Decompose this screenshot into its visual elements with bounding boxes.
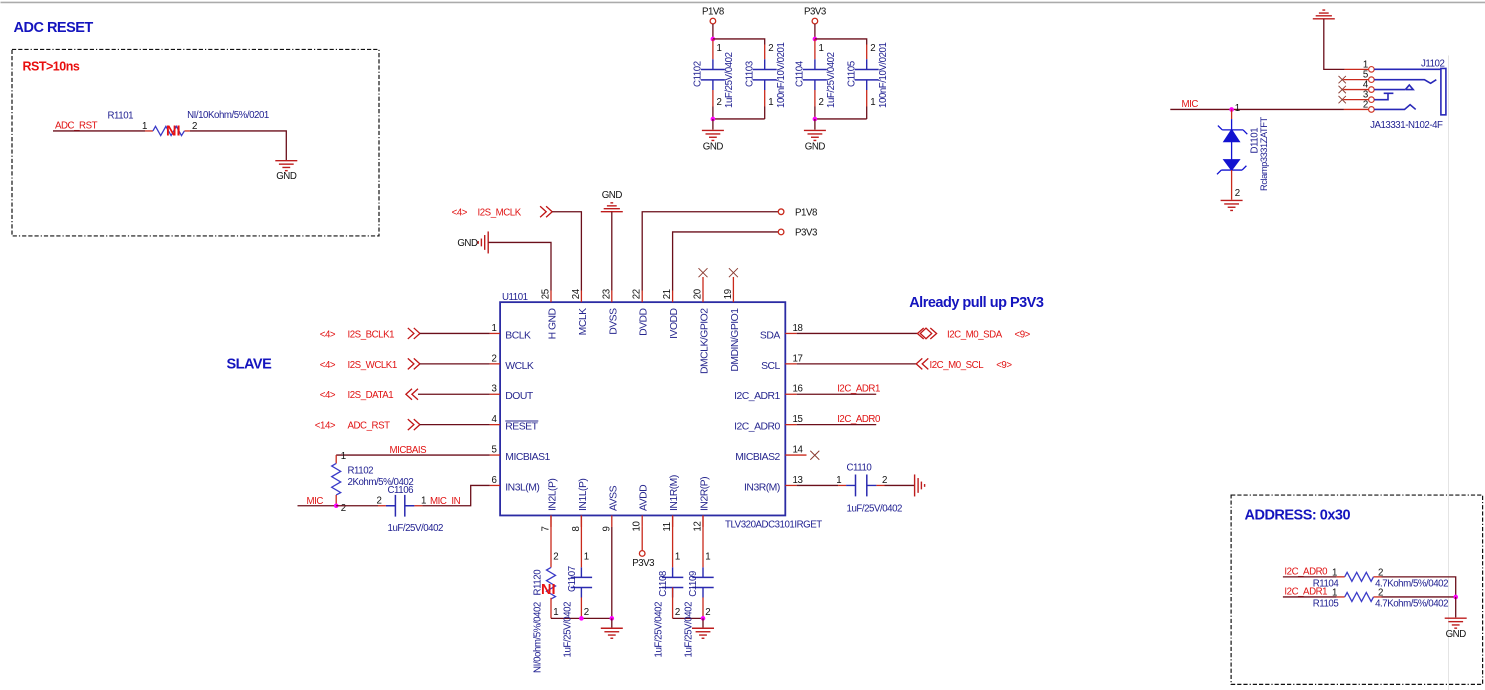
- J1102 pin 1: [1369, 67, 1375, 73]
- J1102 pin 4: [1369, 87, 1375, 93]
- svg-text:DOUT: DOUT: [505, 391, 534, 402]
- svg-text:MICBIAS2: MICBIAS2: [735, 452, 780, 463]
- svg-text:P3V3: P3V3: [632, 558, 654, 569]
- svg-text:4: 4: [492, 414, 498, 425]
- svg-text:1uF/25V/0402: 1uF/25V/0402: [654, 602, 665, 658]
- wire P1V8 to rail: [712, 24, 714, 39]
- svg-text:IVODD: IVODD: [669, 308, 680, 338]
- svg-text:2: 2: [492, 353, 497, 364]
- no-connect X on pin 19: [729, 268, 738, 277]
- svg-text:ADC RESET: ADC RESET: [14, 20, 94, 36]
- svg-text:ADC_RST: ADC_RST: [55, 120, 98, 131]
- svg-text:1: 1: [341, 451, 346, 462]
- wire IVODD pin 21 to P3V3: [673, 232, 779, 291]
- U1101 top pin stubs: [551, 277, 733, 302]
- svg-text:JA13331-N102-4F: JA13331-N102-4F: [1370, 120, 1443, 131]
- svg-text:R1101: R1101: [108, 110, 134, 121]
- svg-text:I2C_ADR0: I2C_ADR0: [734, 422, 780, 433]
- svg-text:6: 6: [492, 475, 497, 486]
- svg-text:NI: NI: [166, 123, 181, 139]
- ground symbol sideways right (C1110): [915, 474, 925, 496]
- wire I2S_DATA1 to pin 3: [418, 393, 490, 395]
- svg-text:4.7Kohm/5%/0402: 4.7Kohm/5%/0402: [1375, 599, 1448, 610]
- svg-text:BCLK: BCLK: [505, 330, 531, 341]
- svg-text:I2C_ADR0: I2C_ADR0: [1284, 566, 1328, 577]
- svg-text:I2C_ADR1: I2C_ADR1: [734, 391, 780, 402]
- svg-text:<4>: <4>: [320, 390, 336, 401]
- svg-text:2: 2: [584, 607, 589, 618]
- wire to ground: [702, 618, 704, 627]
- capacitor C1107: [571, 577, 592, 587]
- svg-text:P3V3: P3V3: [795, 228, 817, 239]
- U1101 right pin stubs: [785, 333, 806, 485]
- svg-text:3: 3: [492, 384, 497, 395]
- svg-text:<4>: <4>: [320, 329, 336, 340]
- svg-text:17: 17: [793, 353, 803, 364]
- svg-text:RESET: RESET: [505, 422, 538, 433]
- svg-text:1: 1: [421, 495, 426, 506]
- U1101 right pin numbers: [793, 323, 804, 486]
- svg-text:P1V8: P1V8: [702, 7, 724, 18]
- svg-text:WCLK: WCLK: [505, 361, 534, 372]
- capacitor C1102: [701, 69, 725, 79]
- capacitor C1106: [395, 495, 404, 517]
- wire to ground: [814, 119, 816, 130]
- svg-text:1: 1: [1332, 567, 1337, 578]
- wire pin 7 to R1120: [550, 515, 552, 567]
- U1101 left pin numbers: [492, 323, 498, 486]
- capacitor C1105: [855, 69, 879, 79]
- svg-text:C1104: C1104: [795, 60, 806, 87]
- wire R1104 pin2 to gnd branch: [1374, 576, 1382, 578]
- svg-text:NI/10Kohm/5%/0201: NI/10Kohm/5%/0201: [187, 110, 269, 121]
- svg-text:SDA: SDA: [760, 330, 780, 341]
- svg-text:NI: NI: [541, 582, 556, 598]
- svg-text:<4>: <4>: [452, 207, 468, 218]
- svg-text:2: 2: [768, 43, 773, 54]
- svg-text:2: 2: [341, 503, 346, 514]
- resistor R1105: [1345, 592, 1374, 601]
- svg-text:I2C_ADR1: I2C_ADR1: [1284, 587, 1327, 598]
- wire D1101 to ground: [1231, 170, 1233, 200]
- svg-text:AVDD: AVDD: [639, 485, 650, 511]
- ground symbol (C1108/C1109 group): [692, 628, 714, 638]
- node gnd rail junction 2: [610, 616, 615, 621]
- off-page chevron I2S_DATA1 (output): [406, 389, 418, 400]
- wire MIC node to C1106: [336, 505, 378, 507]
- wire I2C_ADR1 to R1105: [1283, 596, 1337, 598]
- svg-text:AVSS: AVSS: [608, 485, 619, 511]
- svg-text:P3V3: P3V3: [804, 7, 826, 18]
- node bottom rail junction: [813, 117, 818, 122]
- svg-text:GND: GND: [703, 141, 724, 152]
- svg-text:2: 2: [553, 551, 558, 562]
- svg-text:100nF/10V/0201: 100nF/10V/0201: [776, 43, 787, 108]
- wire R1102 to MIC node: [335, 495, 337, 506]
- svg-text:11: 11: [662, 522, 673, 531]
- svg-text:1: 1: [768, 97, 773, 108]
- svg-text:C1107: C1107: [567, 566, 578, 592]
- node P1V8 rail junction: [711, 37, 716, 42]
- wire I2C_ADR0 to R1104: [1283, 576, 1337, 578]
- svg-text:13: 13: [793, 475, 803, 486]
- U1101 bottom pin names: [548, 475, 711, 511]
- svg-text:IN1R(M): IN1R(M): [669, 475, 680, 511]
- svg-text:I2S_DATA1: I2S_DATA1: [348, 390, 394, 401]
- svg-text:P1V8: P1V8: [795, 207, 817, 218]
- ground symbol GND (P1V8 caps): [702, 130, 724, 140]
- svg-text:IN2L(P): IN2L(P): [548, 479, 559, 511]
- no-connect X on pin 14 MICBIAS2: [810, 451, 819, 460]
- wire MIC: [1170, 108, 1344, 110]
- svg-text:<9>: <9>: [1015, 329, 1031, 340]
- wire SDA pin 18: [797, 332, 918, 334]
- svg-text:15: 15: [793, 414, 803, 425]
- svg-text:R1102: R1102: [348, 465, 374, 476]
- wire MICBIAS1: [336, 454, 489, 456]
- svg-text:7: 7: [541, 526, 552, 531]
- svg-text:MCLK: MCLK: [578, 308, 589, 335]
- wire I2C_ADR1 pin 16: [797, 393, 877, 395]
- svg-text:GND: GND: [276, 171, 297, 182]
- svg-text:9: 9: [601, 526, 612, 531]
- off-page chevron I2C_M0_SCL: [916, 358, 928, 369]
- svg-text:2: 2: [377, 495, 382, 506]
- svg-text:1uF/25V/0402: 1uF/25V/0402: [847, 503, 903, 514]
- svg-text:5: 5: [492, 445, 497, 456]
- wire DVSS pin 23: [611, 212, 613, 291]
- wire caps to bottom rail: [713, 90, 765, 106]
- svg-text:MICBAIS: MICBAIS: [390, 445, 428, 456]
- ground symbol (top right, inverted above wire): [1313, 10, 1335, 19]
- wire I2S_BCLK1 to pin 1: [420, 332, 490, 334]
- svg-text:DMCLK/GPIO2: DMCLK/GPIO2: [700, 308, 711, 374]
- svg-text:ADDRESS: 0x30: ADDRESS: 0x30: [1245, 507, 1351, 523]
- svg-text:1: 1: [836, 475, 841, 486]
- wire ADC_RST to R1101 pin1: [53, 130, 145, 132]
- resistor R1102: [332, 463, 341, 494]
- dashed note box ADDRESS: [1231, 495, 1483, 684]
- capacitor C1108: [662, 577, 683, 587]
- svg-text:2: 2: [705, 607, 710, 618]
- page zone border faint vertical line: [1448, 55, 1449, 690]
- U1101 left pin names: [505, 330, 550, 493]
- svg-text:C1103: C1103: [745, 61, 756, 87]
- svg-text:1uF/25V/0402: 1uF/25V/0402: [563, 602, 574, 658]
- wire IN3R(M) pin 13 to C1110: [797, 484, 838, 486]
- svg-text:ADC_RST: ADC_RST: [348, 421, 391, 432]
- svg-text:14: 14: [793, 445, 804, 456]
- wire down to R1102: [335, 455, 337, 463]
- svg-text:MIC: MIC: [1182, 99, 1199, 110]
- wire top rail C1102/C1103: [713, 39, 765, 45]
- ground symbol GND (P3V3 caps): [804, 130, 826, 140]
- svg-text:12: 12: [693, 522, 704, 532]
- wire C1109 to gnd rail: [702, 597, 704, 618]
- svg-text:I2S_MCLK: I2S_MCLK: [478, 207, 522, 218]
- svg-text:I2C_M0_SCL: I2C_M0_SCL: [930, 360, 985, 371]
- svg-text:1: 1: [705, 551, 710, 562]
- svg-text:1: 1: [1235, 103, 1240, 114]
- node pullup gnd junction: [1453, 595, 1458, 600]
- wire DVDD pin 22 to P1V8: [642, 212, 778, 291]
- svg-text:8: 8: [571, 526, 582, 531]
- svg-text:1uF/25V/0402: 1uF/25V/0402: [684, 602, 695, 658]
- svg-text:1: 1: [584, 551, 589, 562]
- svg-text:C1110: C1110: [847, 462, 873, 473]
- wire I2S_MCLK to pin 24: [552, 212, 581, 291]
- wire I2S_WCLK1 to pin 2: [420, 363, 490, 365]
- U1101 left pin stubs: [490, 333, 501, 485]
- capacitor C1104: [803, 69, 827, 79]
- svg-text:SLAVE: SLAVE: [227, 356, 273, 372]
- svg-text:DVSS: DVSS: [608, 308, 619, 335]
- wire pin 8 to C1107: [580, 515, 582, 567]
- svg-text:4.7Kohm/5%/0402: 4.7Kohm/5%/0402: [1375, 578, 1448, 589]
- svg-text:1: 1: [553, 607, 558, 618]
- svg-text:RST>10ns: RST>10ns: [23, 59, 80, 73]
- off-page chevron I2S_BCLK1: [408, 328, 420, 339]
- svg-text:23: 23: [601, 289, 612, 299]
- wire C1110 to ground: [876, 484, 884, 486]
- capacitor C1110: [856, 475, 867, 497]
- svg-text:IN3R(M): IN3R(M): [744, 482, 780, 493]
- wire AVDD pin 10 to P3V3: [641, 527, 643, 551]
- svg-text:19: 19: [723, 289, 734, 299]
- ground symbol (pullups): [1445, 618, 1467, 628]
- svg-text:I2C_ADR0: I2C_ADR0: [837, 414, 881, 425]
- wire AVSS pin 9 to gnd: [611, 527, 613, 618]
- svg-text:25: 25: [541, 289, 552, 299]
- resistor R1101: [153, 126, 184, 135]
- svg-text:1: 1: [819, 43, 824, 54]
- wire pin 11 to C1108: [672, 515, 674, 567]
- svg-text:IN1L(P): IN1L(P): [578, 479, 589, 511]
- svg-text:I2C_ADR1: I2C_ADR1: [837, 384, 880, 395]
- RESET overline: [505, 420, 538, 422]
- svg-text:1: 1: [717, 43, 722, 54]
- svg-text:1: 1: [675, 551, 680, 562]
- svg-text:1: 1: [1332, 588, 1337, 599]
- no-connect X on pin 20: [699, 268, 708, 277]
- svg-text:GND: GND: [805, 141, 826, 152]
- svg-text:16: 16: [793, 384, 803, 395]
- U1101 bottom pin stubs: [551, 515, 703, 527]
- svg-text:2: 2: [675, 607, 680, 618]
- wire MIC: [298, 505, 337, 507]
- wire ground to J1102 pin1: [1324, 19, 1345, 70]
- off-page chevron I2S_MCLK: [540, 206, 552, 217]
- svg-text:22: 22: [632, 289, 643, 299]
- node MIC junction: [334, 503, 339, 508]
- svg-text:<4>: <4>: [320, 360, 336, 371]
- svg-text:C1106: C1106: [388, 485, 414, 496]
- svg-text:I2S_WCLK1: I2S_WCLK1: [348, 360, 397, 371]
- wire R1120 to gnd rail: [550, 598, 552, 619]
- wire C1106 to pin 6 IN3L(M): [414, 505, 422, 507]
- node bottom rail junction: [711, 117, 716, 122]
- svg-text:<9>: <9>: [996, 360, 1012, 371]
- jack body and contacts J1102: [1374, 68, 1446, 114]
- svg-text:R1105: R1105: [1313, 599, 1339, 610]
- ground symbol (D1101): [1221, 200, 1243, 210]
- svg-text:DVDD: DVDD: [639, 308, 650, 335]
- svg-text:H GND: H GND: [548, 308, 559, 339]
- svg-text:<14>: <14>: [315, 421, 336, 432]
- svg-text:2: 2: [882, 475, 887, 486]
- wire H GND to pin 25: [489, 242, 552, 290]
- svg-text:1: 1: [870, 97, 875, 108]
- wire P3V3 to rail: [814, 24, 816, 39]
- svg-text:1: 1: [142, 121, 147, 132]
- capacitor C1109: [692, 577, 713, 587]
- svg-text:Rclamp3331ZATFT: Rclamp3331ZATFT: [1259, 117, 1269, 191]
- off-page chevron I2S_WCLK1: [408, 358, 420, 369]
- wire to ground: [712, 119, 714, 130]
- svg-text:TLV320ADC3101IRGET: TLV320ADC3101IRGET: [725, 519, 822, 530]
- svg-text:20: 20: [693, 288, 704, 299]
- wire I2C_ADR0 pin 15: [797, 424, 877, 426]
- diode D1101 TVS: [1231, 109, 1233, 119]
- svg-text:DMDIN/GPIO1: DMDIN/GPIO1: [730, 308, 741, 372]
- resistor R1120: [547, 567, 556, 598]
- svg-text:2: 2: [819, 97, 824, 108]
- J1102 pin 5: [1369, 77, 1375, 83]
- svg-text:100nF/10V/0201: 100nF/10V/0201: [878, 43, 889, 108]
- svg-text:GND: GND: [602, 190, 623, 201]
- wire to ground: [1455, 597, 1457, 617]
- svg-text:I2S_BCLK1: I2S_BCLK1: [348, 329, 395, 340]
- svg-text:C1105: C1105: [847, 61, 858, 87]
- wire ADC_RST to pin 4: [420, 424, 490, 426]
- svg-text:21: 21: [662, 289, 673, 299]
- svg-text:SCL: SCL: [761, 361, 780, 372]
- wire R1101 pin2 to GND: [184, 130, 190, 132]
- wire pin 12 to C1109: [702, 515, 704, 567]
- svg-text:C1102: C1102: [693, 61, 704, 87]
- node MIC junction: [1229, 107, 1234, 112]
- J1102 pin 3: [1369, 97, 1375, 103]
- wire C1108 to gnd rail: [672, 587, 674, 597]
- svg-text:24: 24: [571, 288, 582, 299]
- no-connect X on pin 5: [1339, 76, 1346, 83]
- ground symbol GND (ADC RESET box): [275, 161, 297, 171]
- wire C1107 to gnd rail: [580, 597, 582, 618]
- power port P3V3 (AVDD): [639, 551, 645, 557]
- svg-text:GND: GND: [457, 238, 478, 249]
- U1101 top pin numbers: [541, 288, 734, 299]
- svg-text:IN2R(P): IN2R(P): [700, 477, 711, 511]
- no-connect X on pin 3: [1339, 96, 1346, 103]
- svg-text:IN3L(M): IN3L(M): [505, 482, 539, 493]
- op-amp U1101 TLV320ADC3101 body: [500, 302, 785, 515]
- node gnd rail junction 1: [579, 616, 584, 621]
- svg-text:C1108: C1108: [658, 571, 669, 597]
- svg-text:Already pull up P3V3: Already pull up P3V3: [909, 295, 1044, 311]
- dashed note box RST: [12, 49, 379, 236]
- capacitor C1103: [753, 69, 777, 79]
- wire caps to bottom rail: [815, 90, 867, 106]
- U1101 right pin names: [734, 330, 780, 493]
- off-page chevron ADC_RST: [408, 419, 420, 430]
- wire to ground: [611, 618, 613, 627]
- U1101 top pin names: [548, 308, 741, 374]
- power port P3V3 (IVODD): [778, 229, 784, 235]
- svg-text:2: 2: [717, 97, 722, 108]
- U1101 bottom pin numbers: [541, 521, 704, 532]
- svg-text:2: 2: [1235, 188, 1240, 199]
- wire SCL pin 17: [797, 363, 917, 365]
- svg-text:1: 1: [492, 323, 497, 334]
- wire top rail C1104/C1105: [815, 39, 867, 45]
- svg-text:NI/0ohm/5%/0402: NI/0ohm/5%/0402: [533, 602, 544, 673]
- svg-text:18: 18: [793, 323, 803, 334]
- svg-text:U1101: U1101: [502, 292, 528, 303]
- node P3V3 rail junction: [813, 37, 818, 42]
- svg-text:GND: GND: [1446, 629, 1467, 640]
- off-page port I2C_M0_SDA (bidirectional diamond): [917, 328, 936, 339]
- svg-text:2: 2: [870, 43, 875, 54]
- node gnd rail junction 3: [701, 616, 706, 621]
- svg-text:1uF/25V/0402: 1uF/25V/0402: [388, 523, 444, 534]
- svg-text:MICBIAS1: MICBIAS1: [505, 452, 550, 463]
- svg-text:1uF/25V/0402: 1uF/25V/0402: [826, 52, 837, 108]
- J1102 pin 2: [1369, 107, 1375, 113]
- power port P1V8 (DVDD): [778, 209, 784, 215]
- page top border line: [1, 2, 1485, 4]
- no-connect X on pin 4: [1339, 86, 1346, 93]
- wire R1105 pin2 to gnd branch: [1374, 596, 1382, 598]
- svg-text:C1109: C1109: [688, 571, 699, 597]
- svg-text:1uF/25V/0402: 1uF/25V/0402: [724, 52, 735, 108]
- ground symbol (AVSS group): [601, 628, 623, 638]
- svg-text:10: 10: [632, 521, 643, 532]
- svg-text:I2C_M0_SDA: I2C_M0_SDA: [947, 329, 1003, 340]
- resistor R1104: [1345, 572, 1374, 581]
